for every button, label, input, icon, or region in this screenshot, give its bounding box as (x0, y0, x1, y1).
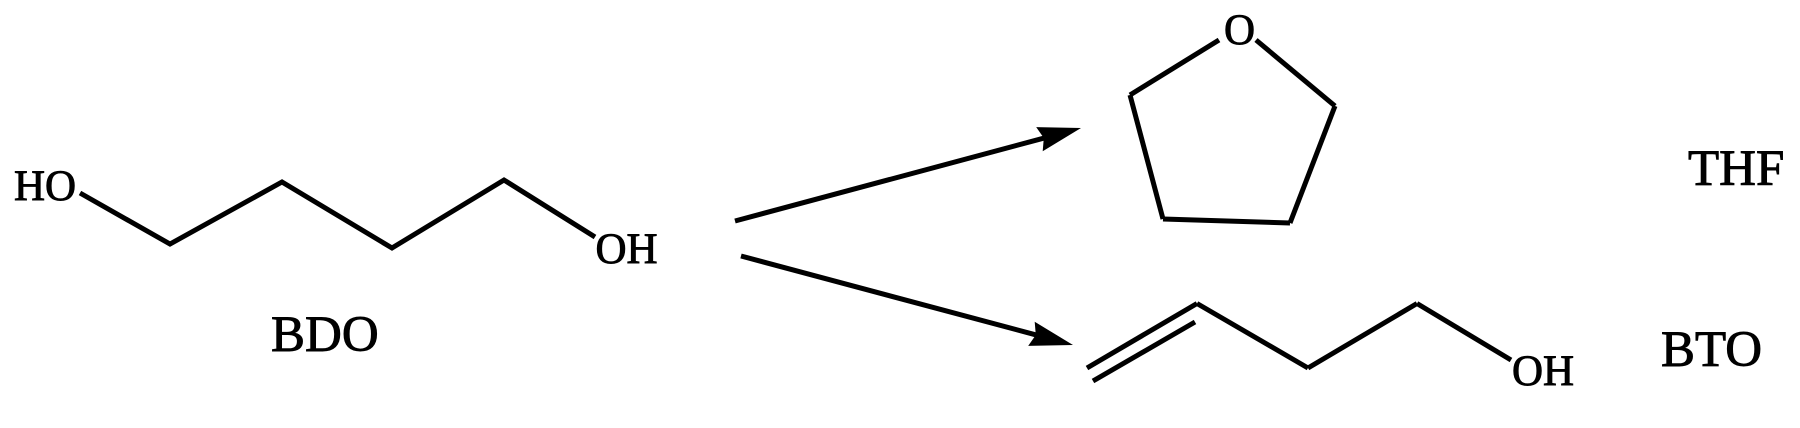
arrow to BTO (741, 256, 1073, 346)
atom label O (THF oxygen) (1224, 7, 1255, 54)
svg-text:OH: OH (596, 226, 658, 273)
label BDO (271, 307, 379, 363)
svg-text:HO: HO (14, 163, 76, 210)
atom label HO (BDO left hydroxyl) (14, 163, 76, 210)
label BTO (1661, 322, 1762, 378)
THF ring bond C5-O (right) (1256, 40, 1335, 106)
svg-text:OH: OH (1512, 348, 1574, 395)
bond C3-C4 of BTO (1308, 304, 1417, 369)
arrow to THF (735, 127, 1081, 221)
THF ring bond C2-C3 (left side) (1130, 95, 1163, 219)
atom label OH (BDO right hydroxyl) (596, 226, 658, 273)
label THF (1688, 141, 1784, 197)
THF ring bond C3-C4 (bottom) (1163, 219, 1290, 223)
bond C4-OH of BTO (1417, 304, 1511, 361)
double bond C1=C2 of BTO (inner line) (1093, 322, 1195, 381)
svg-text:BDO: BDO (271, 307, 379, 363)
svg-text:BTO: BTO (1661, 322, 1762, 378)
double bond C1=C2 of BTO (outer line) (1087, 304, 1197, 369)
THF ring bond C4-C5 (right side) (1290, 106, 1335, 223)
atom label OH (BTO hydroxyl) (1512, 348, 1574, 395)
THF ring bond O-C2 (left) (1130, 40, 1219, 95)
bond chain BDO zigzag C1-C4 (80, 180, 595, 248)
svg-text:THF: THF (1688, 141, 1784, 197)
bond C2-C3 of BTO (1197, 304, 1308, 369)
svg-text:O: O (1224, 7, 1255, 54)
